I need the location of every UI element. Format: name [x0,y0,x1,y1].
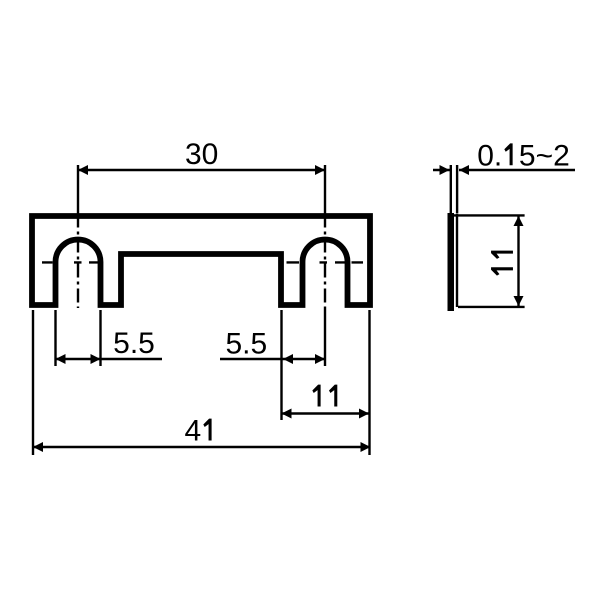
left arch vertical centerline [77,165,79,214]
dimension 5.5 right line [220,358,325,360]
side dimension 11 top arrow [514,216,524,226]
thickness dimension left arrow [440,165,450,175]
side dimension 11 text [491,251,513,276]
svg-text:5.5: 5.5 [113,327,155,360]
side dimension 11 bottom arrow [514,296,524,306]
dimension 11 bottom text [312,385,320,407]
side view section bar [448,213,455,311]
side view bottom extension line [458,306,525,308]
dimension 11 bottom right arrow [359,409,369,419]
dimension 5.5 left arrow a [56,354,66,364]
left arch horizontal centerline [42,261,101,263]
front view outline [32,216,370,305]
dimension 5.5 left arrow b [91,354,101,364]
side dimension 11 line [517,216,519,306]
dimension 5.5 right arrow b [315,354,325,364]
dimension 41 line [33,446,371,448]
extension line part right edge [368,310,370,455]
dimension 41 right arrow [361,442,371,452]
dimension 11 bottom left arrow [282,409,292,419]
thickness extension line right [456,165,458,214]
svg-text:5.5: 5.5 [225,327,267,360]
side view inner face line [456,214,458,307]
thickness extension line left [450,165,452,214]
extension line slot right edge [99,310,101,366]
extension line slot left edge [54,310,56,366]
thickness dimension right line [459,169,575,171]
thickness dimension right arrow [459,165,469,175]
dimension 30 left arrow [78,165,88,175]
dimension 41 left arrow [33,442,43,452]
right arch horizontal centerline [287,261,364,263]
thickness dimension left line [433,169,450,171]
dimension 5.5 left line [56,358,163,360]
dimension 11 bottom line [282,412,370,414]
svg-text:0.: 0. [477,139,502,172]
dimension 5.5 right arrow a [283,354,293,364]
extension line part left edge [32,310,34,455]
svg-text:4: 4 [185,415,202,448]
right arch vertical centerline [324,165,326,214]
svg-text:5~2: 5~2 [519,139,570,172]
dimension 30 right arrow [315,165,325,175]
svg-text:30: 30 [185,138,218,171]
extension line right leg left edge [280,310,282,420]
dimension 30 line [78,169,325,171]
side view top extension line [454,214,525,216]
